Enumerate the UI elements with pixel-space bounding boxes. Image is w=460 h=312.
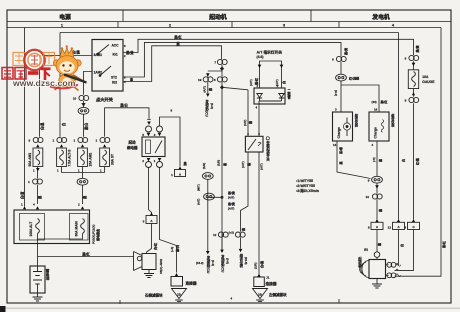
svg-text:黑: 黑 (248, 121, 253, 124)
svg-text:白/黑: 白/黑 (259, 260, 264, 268)
svg-text:二极管: 二极管 (286, 88, 291, 100)
AT bracket arrows (258, 65, 262, 68)
svg-text:4: 4 (392, 22, 395, 27)
gauge fuse box (408, 70, 418, 89)
svg-text:www.dzsc.com: www.dzsc.com (12, 78, 76, 88)
connector 12A square (393, 222, 405, 229)
svg-text:6: 6 (405, 57, 407, 61)
svg-text:蓄电池: 蓄电池 (45, 268, 50, 280)
connector below fuse1 (33, 179, 43, 184)
svg-text:30A ST: 30A ST (111, 154, 115, 165)
svg-text:黑: 黑 (176, 41, 180, 46)
svg-text:9: 9 (258, 132, 260, 136)
svg-text:10: 10 (73, 97, 77, 101)
svg-text:19: 19 (198, 78, 202, 82)
svg-text:茶/绿: 茶/绿 (338, 146, 343, 155)
relay top connector 5 (146, 126, 152, 132)
svg-text:A: A (179, 173, 182, 177)
gauge fuse lower connector (409, 97, 419, 102)
svg-text:黑: 黑 (377, 243, 382, 246)
svg-text:发电机: 发电机 (371, 13, 390, 21)
svg-text:•1:W/TY55: •1:W/TY55 (296, 179, 313, 183)
wire: 12A down to solenoid coil (397, 230, 399, 265)
svg-text:12: 12 (213, 233, 217, 237)
ignition switch lever AM1 (98, 45, 109, 54)
svg-text:黑/黄: 黑/黄 (228, 190, 235, 195)
svg-text:组合仪表: 组合仪表 (239, 253, 244, 268)
svg-text:4: 4 (404, 226, 406, 230)
svg-text:点火开关: 点火开关 (96, 96, 114, 103)
svg-text:1AM2: 1AM2 (94, 70, 103, 74)
svg-text:(+4): (+4) (170, 247, 174, 252)
svg-text:6: 6 (124, 44, 126, 48)
svg-text:1B: 1B (258, 292, 262, 296)
wire: bus drop to connector 12A and starter solenoid (398, 33, 400, 220)
svg-text:白: 白 (61, 123, 66, 126)
svg-text:4: 4 (124, 80, 126, 84)
svg-text:1: 1 (74, 139, 76, 143)
bottom frame tick 2 (338, 299, 340, 303)
battery box (30, 266, 45, 293)
svg-text:(3-5): (3-5) (225, 258, 229, 264)
svg-text:J1: J1 (266, 275, 270, 279)
svg-text:黑/白: 黑/白 (120, 102, 128, 107)
watermark orange char pian (44, 53, 55, 66)
relay block pins (23, 206, 26, 209)
svg-text:100A ALT: 100A ALT (29, 222, 33, 237)
svg-text:3: 3 (143, 220, 145, 224)
svg-text:P10(X),P11(X): P10(X),P11(X) (92, 225, 96, 244)
connector pair meter 22-5 (235, 232, 245, 237)
svg-text:黑: 黑 (338, 161, 343, 164)
wire: gauge fuse column down (413, 61, 415, 219)
svg-text:1: 1 (154, 159, 156, 163)
svg-text:起动: 起动 (128, 140, 136, 145)
fusible link 60A MAIN (81, 219, 85, 234)
svg-text:C: C (412, 225, 415, 229)
svg-text:ACC: ACC (112, 43, 120, 47)
svg-text:4: 4 (33, 202, 35, 206)
watermark red char xia (41, 67, 51, 70)
ground triangle left damper (172, 289, 187, 299)
svg-text:(A/T): (A/T) (202, 86, 206, 92)
wire: neutral switch left out to meter arrow (241, 152, 249, 249)
wire: charge1 bottom to junction 9 (337, 141, 371, 179)
svg-text:(1/R): (1/R) (253, 263, 257, 269)
svg-text:(43): (43) (372, 100, 377, 104)
svg-text:连接器: 连接器 (186, 281, 197, 286)
svg-text:IG2: IG2 (112, 80, 117, 84)
svg-text:空档起动开关: 空档起动开关 (265, 140, 270, 161)
svg-text:(A/T): (A/T) (228, 206, 234, 210)
watermark red char yi (28, 71, 39, 75)
fuse 15A AM2 (78, 137, 88, 142)
fusible link 100A ALT (36, 219, 40, 234)
svg-text:GAUGE: GAUGE (422, 80, 435, 84)
connector 7 (217, 59, 227, 64)
svg-text:黑/红: 黑/红 (82, 251, 90, 256)
svg-text:2: 2 (142, 159, 144, 163)
svg-text:1: 1 (57, 169, 59, 173)
wire: 4C down to solenoid (395, 230, 414, 271)
fuse 7.5A ALT-S (57, 137, 67, 142)
svg-text:白/黑: 白/黑 (40, 122, 45, 130)
svg-text:黑: 黑 (130, 77, 133, 82)
arrow to ECU 3-6 (206, 94, 210, 97)
solenoid coil 2 (386, 269, 401, 277)
svg-text:1B: 1B (177, 292, 181, 296)
horn box (142, 254, 156, 270)
battery ground (37, 293, 39, 297)
svg-text:红/黑: 红/黑 (415, 158, 420, 165)
wire: battery feed (37, 239, 39, 266)
svg-text:3AM1: 3AM1 (94, 53, 103, 57)
svg-text:6: 6 (124, 76, 126, 80)
diode 1 (257, 94, 262, 102)
svg-text:(1/R): (1/R) (202, 163, 206, 169)
band tick c (338, 22, 340, 28)
svg-text:起动机: 起动机 (208, 13, 227, 21)
watermark red char wei (2, 68, 51, 81)
svg-text:(A/T): (A/T) (228, 195, 234, 199)
fusible link block sub-box 1 (20, 214, 45, 241)
fusible link block sub-box 2 (70, 214, 89, 241)
svg-text:8: 8 (368, 226, 370, 230)
connector 8 (217, 77, 227, 82)
wire: combo meter column (340, 62, 342, 112)
svg-text:继电器: 继电器 (127, 145, 138, 150)
svg-text:组合仪表: 组合仪表 (390, 113, 395, 128)
wire: connector8 diagonal to neutral switch (222, 87, 248, 136)
svg-text:8: 8 (171, 109, 173, 113)
svg-text:Charge: Charge (337, 127, 341, 139)
svg-text:黑/黄: 黑/黄 (126, 50, 134, 55)
svg-text:1: 1 (53, 139, 55, 143)
svg-text:白: 白 (399, 244, 404, 247)
svg-text:红/浅绿: 红/浅绿 (349, 76, 360, 81)
band tick b (231, 22, 233, 28)
connector 1A square (175, 170, 186, 177)
connector 3A square (146, 216, 157, 224)
wire: relay out2 to connector J2 (160, 168, 177, 273)
connector 10 pair (372, 194, 382, 199)
bottom frame tick 1 (119, 300, 121, 304)
wire: fuse4 to starter relay coil (105, 108, 149, 137)
connector J1 box (254, 277, 264, 287)
svg-text:12: 12 (388, 226, 392, 230)
band tick a (117, 22, 119, 28)
svg-text:(A/T): (A/T) (241, 161, 245, 168)
svg-text:A: A (397, 225, 400, 229)
neutral start switch box (245, 136, 263, 152)
wire: fuse1 bottom to relay block pin4 (37, 167, 39, 205)
connector 19 (203, 77, 213, 82)
watermark orange char zhao (13, 53, 25, 66)
wire: relay out to connector 3A and horn (147, 168, 152, 254)
wire: AM1 white-black to fuse1 (40, 56, 93, 137)
solenoid terminal 1 (387, 262, 392, 267)
svg-text:连接器: 连接器 (266, 281, 277, 286)
svg-text:黑: 黑 (222, 163, 227, 166)
horn inlet circle (137, 256, 141, 260)
svg-text:60A MAIN: 60A MAIN (75, 221, 79, 237)
svg-text:3: 3 (283, 22, 286, 27)
svg-text:15A AM2: 15A AM2 (89, 153, 93, 167)
svg-text:黑/黄: 黑/黄 (414, 45, 419, 53)
connector 10 on AM2 wire (79, 95, 89, 100)
svg-text:8: 8 (405, 99, 407, 103)
relay block box P10 (14, 210, 90, 244)
scan edge smear bottom (0, 308, 460, 309)
svg-text:黑/白: 黑/白 (175, 245, 180, 252)
oval connector below fuse bus (77, 178, 88, 185)
ignition switch box (92, 40, 123, 92)
header tick 1 (122, 10, 124, 22)
svg-text:•2:W/0TY55: •2:W/0TY55 (296, 184, 315, 188)
svg-text:6: 6 (332, 58, 334, 62)
watermark mascot arm and pen (73, 75, 83, 81)
starter motor terminal (374, 252, 380, 258)
svg-text:1: 1 (100, 169, 102, 173)
charge 2 coil (381, 120, 383, 133)
wire: fuse bottoms bus (62, 167, 105, 173)
wire: battery to horn box (38, 256, 134, 258)
header band line (7, 21, 451, 23)
oval 2B (202, 173, 213, 180)
wire: AT bracket (260, 61, 282, 68)
wire: col22 connector pair to arrow (221, 232, 223, 250)
connector pair col22 (218, 232, 228, 237)
svg-text:3: 3 (154, 133, 156, 137)
wire: IG1 black-yellow to gauge fuse column (123, 39, 414, 55)
svg-text:黑: 黑 (241, 228, 246, 231)
wire: left feed from band line down to relay block pin 1 (24, 28, 26, 207)
svg-text:(A/T): (A/T) (260, 163, 264, 170)
svg-text:8: 8 (214, 78, 216, 82)
svg-text:(2-4): (2-4) (211, 260, 215, 266)
horn funnel (134, 252, 143, 271)
svg-text:白: 白 (400, 159, 405, 162)
svg-text:(A/T): (A/T) (243, 120, 247, 126)
svg-text:9: 9 (368, 178, 370, 182)
svg-text:组合仪表: 组合仪表 (353, 113, 358, 128)
svg-text:1: 1 (96, 139, 98, 143)
svg-text:34(A)-JB02: 34(A)-JB02 (159, 259, 163, 274)
wire: bus B+ horizontal y33 (60, 32, 399, 34)
wire: AT switch wires into diode box (260, 68, 282, 88)
charge lamp 1 bulb (343, 123, 350, 130)
svg-text:黑: 黑 (246, 162, 251, 166)
starter ground (376, 279, 378, 285)
svg-text:(B): (B) (364, 248, 368, 252)
junction diamond 2 (221, 86, 224, 89)
svg-text:起动机: 起动机 (357, 256, 362, 268)
wire: IG oval joint horizontal (208, 179, 222, 251)
svg-text:白/蓝: 白/蓝 (19, 191, 24, 199)
svg-text:7.5A ALT-S: 7.5A ALT-S (68, 149, 72, 167)
wire: AM2 to connector 10 and fuse3 (84, 72, 93, 137)
oval connector on AM2 wire (78, 107, 89, 114)
wire: neutral switch right out to J1 ground (258, 152, 260, 274)
svg-text:5: 5 (142, 133, 144, 137)
wire: ST2 black-red to combination meter column (123, 42, 341, 77)
svg-text:10A: 10A (422, 75, 429, 79)
watermark mascot body (59, 74, 75, 87)
starter relay coil (146, 140, 151, 154)
svg-text:IG1: IG1 (113, 53, 118, 57)
svg-text:黑: 黑 (377, 159, 382, 162)
svg-text:1: 1 (61, 22, 64, 27)
svg-text:左侧减振块: 左侧减振块 (268, 292, 287, 297)
svg-text:9: 9 (29, 139, 31, 143)
svg-text:黑/黄: 黑/黄 (228, 201, 235, 206)
svg-text:黑/红: 黑/红 (441, 241, 446, 248)
relay top connector 3 (157, 126, 163, 132)
connector 4C square (408, 222, 420, 229)
ground triangle right damper (253, 289, 268, 299)
svg-text:1: 1 (33, 169, 35, 173)
svg-text:(22-5): (22-5) (244, 257, 248, 265)
svg-text:发动机ECU: 发动机ECU (206, 255, 211, 274)
wire: main bus from band line down right side to starter (395, 28, 442, 277)
charge lamp box 2 (369, 112, 389, 141)
watermark red char ku (15, 68, 26, 80)
svg-text:黑/白: 黑/白 (84, 123, 89, 130)
diode box (254, 88, 285, 104)
svg-text:黑/红: 黑/红 (174, 34, 182, 39)
wire: relay pin3 to connector 1A (160, 117, 181, 167)
svg-text:发动机ECU: 发动机ECU (204, 99, 209, 118)
battery cells (33, 266, 42, 293)
relay pins (147, 133, 151, 136)
svg-text:发动机ECU: 发动机ECU (220, 254, 225, 273)
fuse 30A ST (100, 137, 110, 142)
neutral switch contact (248, 139, 256, 150)
combo meter oval connector (336, 74, 347, 81)
svg-text:(9-1): (9-1) (334, 90, 338, 96)
svg-text:•3:除DLX5min: •3:除DLX5min (296, 188, 319, 193)
junction oval 9 (372, 176, 383, 183)
watermark mascot head (53, 60, 59, 66)
relay bottom connector 1 (157, 162, 163, 168)
svg-text:继电器盒: 继电器盒 (95, 228, 100, 241)
diode join (259, 101, 282, 104)
horn ground (148, 270, 150, 274)
offpage arrows bottom middle (206, 251, 210, 254)
svg-text:3: 3 (335, 108, 337, 112)
wire: junction column to connector 8A and starter (376, 183, 378, 259)
starter motor box (369, 260, 386, 279)
starter relay box (142, 137, 165, 157)
svg-text:(+2): (+2) (229, 230, 234, 234)
svg-text:(M/T): (M/T) (196, 184, 200, 191)
neutral switch contact squiggle (258, 142, 261, 146)
svg-text:14: 14 (333, 143, 337, 147)
svg-text:白/黑: 白/黑 (72, 49, 80, 54)
watermark red swoosh (50, 85, 78, 89)
watermark stamp circle (24, 50, 44, 70)
svg-text:7: 7 (214, 61, 216, 65)
svg-text:电源: 电源 (59, 13, 71, 21)
svg-text:16: 16 (374, 108, 378, 112)
svg-text:4: 4 (256, 106, 258, 110)
svg-text:1: 1 (171, 173, 173, 177)
fuse 50A AM1 (33, 137, 43, 142)
IG oval joint (204, 193, 215, 200)
section band bottom line (7, 27, 441, 29)
solenoid terminal 2 (387, 273, 392, 278)
svg-text:黑: 黑 (184, 161, 188, 166)
svg-text:白/红: 白/红 (153, 242, 158, 250)
svg-text:(A/T): (A/T) (249, 79, 253, 86)
svg-text:1: 1 (21, 202, 23, 206)
svg-text:黑: 黑 (377, 209, 382, 212)
gauge fuse connector 6 (409, 55, 419, 60)
svg-text:A: A (150, 219, 153, 223)
wire: connector7 chain down (208, 65, 222, 250)
connector 8A square (371, 222, 383, 229)
svg-text:A/T 指示灯开关: A/T 指示灯开关 (257, 50, 283, 55)
svg-text:(3-6): (3-6) (210, 103, 214, 109)
svg-text:2: 2 (78, 202, 80, 206)
solenoid coil 1 (386, 263, 401, 266)
svg-text:2: 2 (169, 22, 172, 27)
ignition switch lever AM2 (100, 66, 111, 76)
combo meter connector 6 (336, 56, 346, 61)
svg-text:A: A (376, 225, 379, 229)
svg-text:黑: 黑 (208, 88, 213, 91)
svg-text:2: 2 (247, 132, 249, 136)
connector J2 box (171, 277, 183, 287)
svg-text:Charge: Charge (374, 127, 378, 139)
svg-text:(18-2): (18-2) (196, 261, 204, 265)
svg-text:黑/红: 黑/红 (381, 99, 388, 104)
relay bottom connector 2 (146, 162, 152, 168)
junction diamond (221, 67, 224, 70)
charge lamp box 1 (333, 112, 353, 141)
wire: diode out (258, 104, 260, 136)
svg-text:50A AM1: 50A AM1 (28, 153, 32, 167)
svg-text:4: 4 (231, 297, 233, 301)
wire: IG2 black wire to connector 7 (123, 46, 222, 82)
svg-text:(4-6): (4-6) (257, 55, 264, 59)
wire: charge2 bottom to junction 9 (376, 141, 378, 176)
svg-text:(1/R): (1/R) (217, 160, 221, 166)
svg-text:1: 1 (78, 169, 80, 173)
svg-text:石棉减振块: 石棉减振块 (144, 292, 163, 297)
svg-text:10: 10 (366, 195, 370, 199)
diode 2 (279, 94, 284, 102)
svg-text:白: 白 (281, 81, 286, 84)
svg-text:黑/黄: 黑/黄 (343, 47, 348, 55)
header tick 2 (310, 10, 312, 22)
watermark mascot crown (60, 47, 74, 57)
wire: bus drop to fuse2 (59, 33, 61, 137)
wire: fuse bus to relay block pin2 (82, 173, 84, 205)
svg-text:(•3): (•3) (372, 157, 376, 162)
svg-text:ST2: ST2 (111, 75, 117, 79)
svg-text:4: 4 (372, 143, 374, 147)
starter relay contact (155, 141, 162, 154)
wire: branch to charge lamp 2 (341, 85, 379, 112)
wire: branch to connector 19 (207, 74, 209, 94)
wire: relay block internal links join (38, 234, 83, 240)
starter brushes arcs (360, 261, 369, 278)
svg-text:1: 1 (28, 180, 30, 184)
svg-text:(A/T): (A/T) (196, 199, 200, 205)
